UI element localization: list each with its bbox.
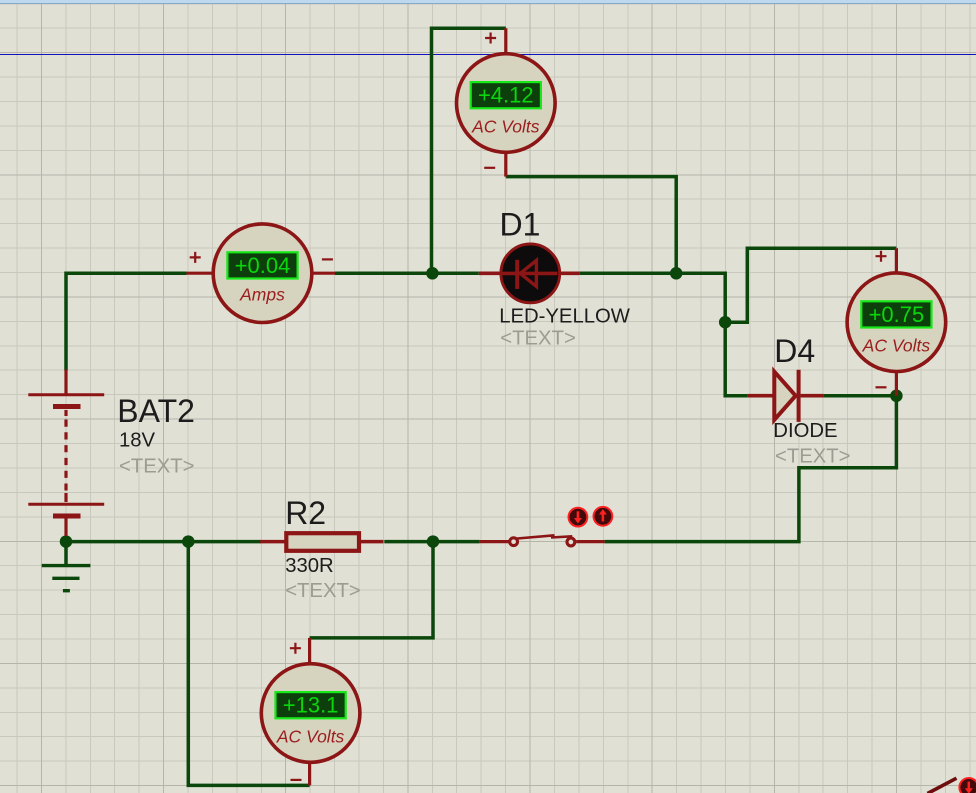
junction node V3- branch bbox=[182, 535, 195, 548]
LED D1 (LED-YELLOW) bbox=[479, 244, 579, 303]
wire: bottom rail battery to resistor bbox=[66, 540, 261, 544]
wire: rail node down to V3 - terminal bbox=[188, 542, 309, 786]
junction node V2-/D4 cathode bbox=[890, 390, 903, 403]
svg-text:<TEXT>: <TEXT> bbox=[285, 580, 361, 602]
svg-text:<TEXT>: <TEXT> bbox=[500, 328, 576, 350]
voltmeter V2 right (AC Volts) showing +0.75 bbox=[847, 248, 946, 395]
wire: node to V2 top bbox=[725, 248, 896, 322]
svg-text:D1: D1 bbox=[500, 207, 541, 243]
svg-text:DIODE: DIODE bbox=[773, 420, 837, 442]
wire: node down to diode anode bbox=[725, 322, 747, 396]
wire: voltmeter V1 top feed bbox=[432, 28, 506, 273]
wire: LED right segment bbox=[579, 273, 725, 322]
svg-text:LED-YELLOW: LED-YELLOW bbox=[499, 306, 631, 328]
battery BAT2 bbox=[28, 370, 104, 537]
svg-text:Amps: Amps bbox=[239, 285, 285, 305]
svg-text:AC Volts: AC Volts bbox=[471, 116, 540, 136]
wire: resistor to switch (through node) bbox=[384, 540, 479, 544]
voltmeter V1 top (AC Volts) showing +4.12 bbox=[457, 28, 556, 176]
wire: battery + up to ammeter row bbox=[66, 273, 187, 370]
wire: ground stub bbox=[64, 542, 68, 565]
svg-text:AC Volts: AC Volts bbox=[862, 336, 931, 356]
switch SW (open) bbox=[480, 535, 605, 546]
junction node D4/V2 branch bbox=[719, 316, 732, 329]
ground bbox=[42, 566, 91, 591]
wire: V2 bottom node down-left to switch bbox=[605, 396, 897, 542]
junction node LED-right bbox=[670, 267, 683, 280]
svg-text:+4.12: +4.12 bbox=[478, 83, 534, 108]
wire: V1 bottom to LED-right column bbox=[506, 177, 676, 274]
svg-text:330R: 330R bbox=[285, 555, 334, 577]
svg-text:<TEXT>: <TEXT> bbox=[775, 446, 851, 468]
svg-text:+13.1: +13.1 bbox=[283, 693, 339, 718]
svg-text:BAT2: BAT2 bbox=[117, 393, 195, 429]
junction node LED-left bbox=[426, 267, 439, 280]
wire: node down to V3 + terminal bbox=[310, 542, 433, 638]
svg-text:+0.04: +0.04 bbox=[235, 253, 291, 278]
svg-text:18V: 18V bbox=[119, 430, 156, 452]
wire: ammeter right to LED left (through node) bbox=[335, 271, 479, 275]
svg-text:<TEXT>: <TEXT> bbox=[119, 455, 195, 477]
junction node battery- bbox=[60, 535, 73, 548]
switch actuator arrow up bbox=[594, 507, 613, 526]
voltmeter V3 bottom (AC Volts) showing +13.1 bbox=[261, 638, 360, 786]
switch actuator arrow down bbox=[569, 508, 588, 527]
svg-text:AC Volts: AC Volts bbox=[276, 726, 345, 746]
svg-text:+0.75: +0.75 bbox=[869, 302, 925, 327]
junction node V3+ branch bbox=[427, 535, 440, 548]
wire: diode cathode to V2 bottom node bbox=[823, 394, 896, 398]
ammeter (Amps) showing +0.04 bbox=[187, 224, 336, 323]
diode D4 (DIODE) bbox=[748, 370, 824, 422]
resistor R2 330R bbox=[260, 533, 383, 551]
svg-text:R2: R2 bbox=[285, 495, 326, 531]
switch actuator arrow down (partial, corner) bbox=[959, 778, 976, 793]
switch lever (partial, bottom-right corner) bbox=[928, 778, 957, 793]
svg-text:D4: D4 bbox=[774, 333, 815, 369]
